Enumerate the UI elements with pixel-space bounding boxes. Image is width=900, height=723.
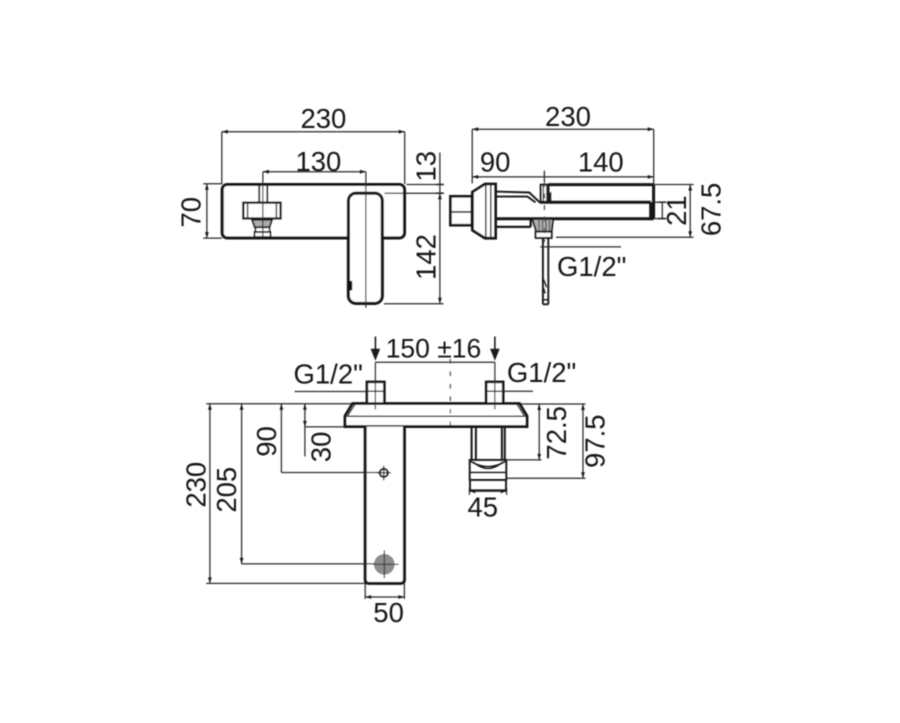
svg-text:72.5: 72.5 [541, 406, 572, 460]
svg-text:13: 13 [410, 151, 441, 182]
dim 130 front [263, 170, 366, 174]
svg-text:150 ±16: 150 ±16 [386, 333, 482, 363]
svg-text:30: 30 [306, 432, 337, 463]
bottom view: wall bar [345, 404, 527, 427]
bottom view: small crosshair [377, 466, 391, 481]
side view: handle base creases [486, 184, 491, 238]
bottom view: connector bottom section [470, 480, 506, 490]
svg-text:21: 21 [661, 195, 692, 226]
side view: spout bar [496, 185, 654, 219]
dim 90 bottom [280, 404, 380, 473]
side view: handle base trapezoid [472, 184, 495, 238]
front view: handle centerline [365, 172, 367, 308]
bottom view: nipple thread lines [367, 390, 503, 392]
bottom view: bar inner chamfers [348, 405, 524, 416]
side view: dark wedge right of cap [549, 192, 552, 203]
side view: drop pipe [543, 238, 548, 304]
svg-text:G1/2": G1/2" [557, 251, 626, 282]
dim 72.5 bottom [506, 404, 542, 460]
side view: pipe collar [536, 232, 552, 238]
svg-text:230: 230 [300, 103, 346, 134]
front view: neck collar [255, 227, 269, 232]
side view: under body [497, 219, 531, 227]
bottom view: mid dashed centerline [449, 359, 451, 428]
front view: foot [254, 232, 270, 237]
front view: valve stem [259, 186, 267, 203]
svg-text:97.5: 97.5 [579, 414, 610, 468]
dim 230 bottom [206, 404, 365, 584]
dim 230 front [222, 130, 405, 184]
dim 67.5 side [556, 185, 694, 238]
bottom view: spout plate [365, 427, 404, 584]
bottom view: outlet hole gray [374, 554, 395, 575]
front view: valve centerline [262, 172, 264, 238]
front view: spool inner edges [248, 204, 277, 218]
side view: handle knob [450, 196, 472, 225]
svg-text:70: 70 [175, 197, 206, 228]
bottom view: shower connector tube [472, 427, 505, 460]
bottom view: right supply nipple [486, 382, 503, 404]
svg-text:230: 230 [180, 462, 211, 508]
dim 230 side [472, 127, 654, 184]
svg-text:90: 90 [480, 146, 511, 177]
dim 50 bottom [365, 583, 404, 599]
svg-text:230: 230 [545, 101, 591, 132]
svg-text:G1/2": G1/2" [294, 358, 363, 389]
side view: pipe chamfer nick [543, 279, 548, 299]
dim 205 bottom [240, 404, 375, 564]
front view: handle button mark [349, 281, 353, 291]
side view: pipe centerline dashed [543, 171, 545, 243]
bottom view: supply centerlines [375, 362, 495, 409]
svg-text:205: 205 [211, 467, 242, 513]
front view: faucet body [222, 185, 404, 238]
dim 13 front [384, 153, 444, 304]
bottom view: bar inner line [345, 415, 527, 417]
side view: cap inner lines [543, 185, 546, 202]
bottom view: left supply nipple [367, 382, 385, 404]
dim 142 front [438, 193, 442, 304]
svg-text:50: 50 [373, 597, 404, 628]
side view: cartridge cap [541, 185, 549, 203]
dim 30 bottom [303, 404, 345, 457]
label G1/2 right [503, 390, 533, 392]
dim 45 bottom [469, 488, 507, 495]
svg-text:130: 130 [295, 146, 341, 177]
svg-text:67.5: 67.5 [695, 183, 726, 237]
dim 70 front [203, 184, 222, 238]
svg-text:142: 142 [410, 234, 441, 280]
bottom view: connector nut [470, 460, 507, 480]
svg-text:G1/2": G1/2" [507, 357, 576, 388]
svg-text:90: 90 [251, 426, 282, 457]
front view: tapered neck shaded [252, 220, 272, 228]
side view: hatched funnel [532, 219, 553, 232]
dim 90-140 side [472, 172, 654, 182]
front view: spool cap [243, 203, 280, 219]
dim 150 pm16 [375, 361, 495, 363]
bottom view: flow arrows 150 dim [371, 337, 500, 361]
svg-text:140: 140 [578, 146, 624, 177]
svg-text:45: 45 [468, 491, 499, 522]
label G1/2 left [295, 391, 367, 393]
dim 21 side [654, 202, 667, 218]
leader G1/2 side [540, 246, 621, 248]
side view: knob mid line [450, 211, 472, 213]
dim 97.5 bottom [506, 404, 585, 478]
side view: body top wedge [496, 192, 540, 203]
front view: handle [348, 193, 382, 303]
